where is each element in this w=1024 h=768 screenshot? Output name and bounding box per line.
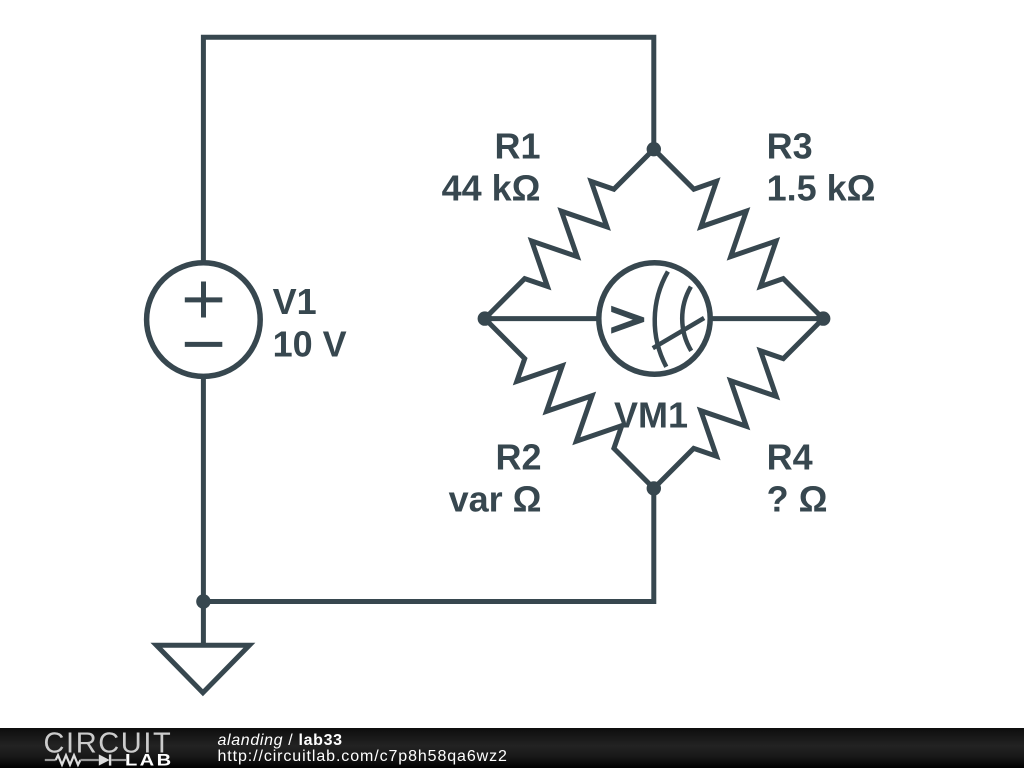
svg-text:R2: R2 [495,436,541,477]
resistor R2 [485,319,654,489]
ground [156,645,249,692]
V1 plus sign [185,282,223,318]
footer bar [0,728,1024,768]
V1 minus sign [185,342,223,347]
svg-text:R4: R4 [767,436,813,477]
svg-text:R1: R1 [494,125,540,166]
svg-text:var Ω: var Ω [449,478,542,519]
logo wire right [111,759,127,761]
node ground junction [196,594,210,608]
VM1 arrow [611,306,644,334]
VM1 gauge arc right [682,287,691,351]
logo diode cathode bar [109,754,111,765]
VM1 gauge arc left [655,272,668,367]
node bottom [647,481,661,495]
resistor R3 [654,149,823,318]
voltage source V1 [147,263,261,377]
svg-text:10 V: 10 V [273,323,347,364]
svg-text:http://circuitlab.com/c7p8h58q: http://circuitlab.com/c7p8h58qa6wz2 [218,748,508,765]
voltmeter VM1 [599,263,710,374]
svg-text:? Ω: ? Ω [767,478,828,519]
wire bottom rail: junction to bottom bridge node [203,488,653,601]
svg-text:VM1: VM1 [614,395,688,436]
svg-text:V1: V1 [273,281,317,322]
svg-text:alanding / lab33: alanding / lab33 [218,732,343,749]
logo diode [99,754,110,765]
wire bridge horizontal left/right through voltmeter [485,316,823,321]
node left [478,311,492,325]
wire top rail: V1 top to top bridge node [203,37,653,264]
svg-text:44 kΩ: 44 kΩ [442,167,541,208]
VM1 needle [653,318,704,348]
svg-text:R3: R3 [767,125,813,166]
svg-text:LAB: LAB [125,750,174,768]
resistor R4 [654,319,823,489]
wire V1 bottom to ground junction [201,375,206,602]
node right [816,311,830,325]
node top [647,142,661,156]
logo wire mid [80,759,98,761]
wire ground stub [201,602,206,646]
logo wire lead left [45,759,56,761]
resistor R1 [485,149,654,318]
svg-text:1.5 kΩ: 1.5 kΩ [767,167,876,208]
logo resistor zigzag [56,755,81,765]
